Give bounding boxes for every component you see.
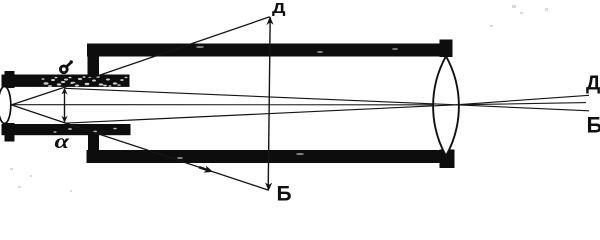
arrowhead down at Б xyxy=(265,182,272,190)
tube bottom wall xyxy=(87,150,443,163)
svg-text:Д: Д xyxy=(272,0,286,17)
tube right cap top xyxy=(440,40,453,58)
tube left wall upper segment xyxy=(88,44,100,84)
dimension arrow between aperture edges xyxy=(64,90,66,122)
svg-text:Б: Б xyxy=(277,183,292,202)
lens L1 (left collimating lens) xyxy=(0,87,11,124)
label б (aperture size), hand-drawn style xyxy=(60,63,71,73)
wire: field ray through objective (from bottom aperture edge to upper right Д) xyxy=(65,95,590,123)
faint smudge bottom left xyxy=(10,168,72,192)
diaphragm top cap xyxy=(5,71,15,88)
scan speckle on diaphragm top bar xyxy=(41,76,127,87)
node: image plane vertical line xyxy=(268,17,270,190)
wire: steep ray lens to lower point Б through bottom aperture edge xyxy=(11,105,269,190)
direction arrowhead on lower ray xyxy=(203,165,214,175)
wire: optical axis xyxy=(2,103,586,105)
scan speckle on diaphragm bottom bar xyxy=(53,128,116,133)
tube left wall lower segment xyxy=(88,128,99,163)
tube right cap bottom xyxy=(440,150,455,169)
diaphragm bottom cap xyxy=(5,123,15,142)
wire: field ray through objective (from top aperture edge to lower right Б) xyxy=(65,88,590,111)
black structure xyxy=(2,40,455,169)
svg-text:α: α xyxy=(55,129,70,153)
faint scan smudges top right xyxy=(490,5,548,27)
arrowhead up at Д xyxy=(266,16,273,25)
tube top wall xyxy=(87,44,452,57)
svg-text:Д: Д xyxy=(586,73,600,95)
lens L2 (objective lens, biconvex) xyxy=(433,56,459,156)
svg-text:Б: Б xyxy=(587,113,600,138)
wire: steep ray lens to upper point Д through top aperture edge xyxy=(11,17,270,105)
scan speckle on tube walls xyxy=(177,46,398,159)
diaphragm top bar xyxy=(2,75,130,87)
diaphragm bottom bar xyxy=(2,124,131,135)
